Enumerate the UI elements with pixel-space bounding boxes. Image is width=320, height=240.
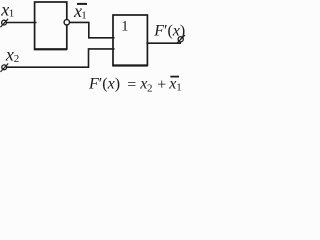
svg-text:1: 1 (9, 8, 15, 20)
svg-text:2: 2 (14, 53, 20, 65)
svg-text:=: = (127, 76, 136, 93)
svg-text:x: x (168, 76, 176, 93)
svg-text:2: 2 (147, 82, 153, 94)
svg-text:1: 1 (81, 10, 87, 22)
svg-text:F′(x): F′(x) (88, 76, 120, 93)
svg-text:+: + (157, 77, 166, 94)
svg-text:1: 1 (121, 19, 128, 35)
svg-text:F′(x): F′(x) (153, 23, 185, 40)
svg-text:x: x (5, 45, 14, 65)
svg-text:1: 1 (176, 82, 182, 94)
